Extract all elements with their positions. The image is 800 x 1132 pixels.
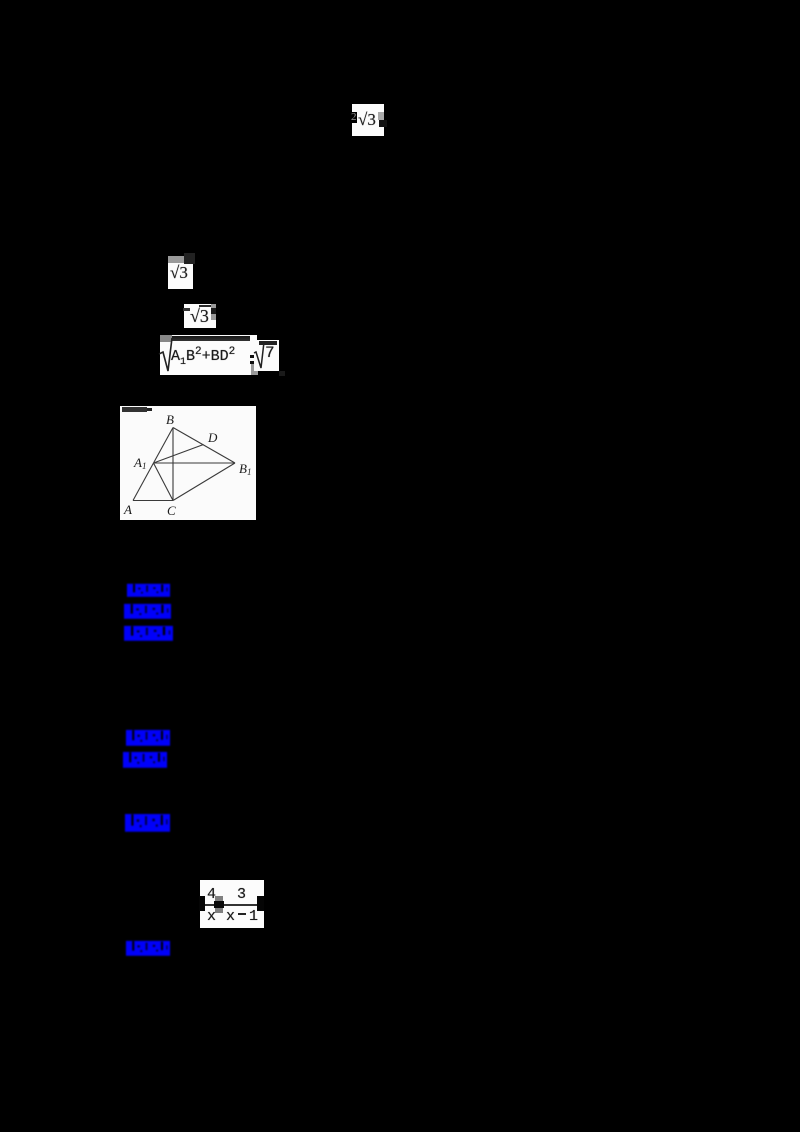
formula image: sqrt(3) (b) bbox=[184, 304, 216, 328]
L6 jieda bbox=[124, 813, 173, 839]
formula image: sqrt(3) (a) bbox=[168, 256, 193, 289]
L5 fenxi bbox=[122, 751, 170, 775]
geometry figure image bbox=[120, 406, 256, 520]
L1 kaodian bbox=[126, 583, 173, 604]
svg-text:B: B bbox=[166, 412, 174, 427]
L4 kaodian bbox=[125, 729, 173, 753]
L2 fenxi bbox=[123, 603, 174, 626]
L7 kaodian bbox=[125, 940, 173, 963]
formula image: 4/x = 3/(x-1) bbox=[200, 880, 264, 928]
svg-text:A: A bbox=[123, 502, 132, 517]
L3 jieda bbox=[123, 625, 176, 648]
formula image: sqrt(A1B^2+BD^2)=sqrt(7) bbox=[160, 335, 257, 375]
formula image: 2 sqrt(3) bbox=[352, 104, 384, 136]
svg-text:D: D bbox=[207, 430, 218, 445]
svg-text:C: C bbox=[167, 503, 176, 518]
